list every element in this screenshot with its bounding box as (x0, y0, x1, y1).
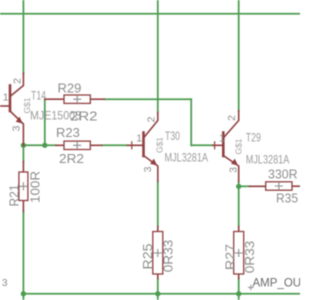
svg-text:R27: R27 (222, 244, 237, 270)
svg-text:AMP_OUT: AMP_OUT (253, 277, 301, 289)
junction R29/R23 tap (42, 143, 47, 148)
wire R29 left vertical feed (44, 99, 46, 145)
svg-text:330R: 330R (268, 166, 298, 181)
resistor R25 (153, 227, 163, 279)
junction rail middle (155, 291, 160, 296)
svg-text:2: 2 (11, 78, 23, 84)
svg-text:3: 3 (142, 166, 154, 172)
svg-text:2R2: 2R2 (70, 108, 98, 123)
wire vertical through T14 collector (22, 0, 24, 74)
svg-text:R21: R21 (6, 185, 21, 207)
svg-text:100R: 100R (28, 171, 43, 203)
junction node A (21, 143, 26, 148)
svg-text:G$1: G$1 (154, 137, 164, 153)
svg-text:2: 2 (145, 116, 157, 122)
svg-text:2: 2 (226, 115, 238, 121)
wire to T29 base (191, 144, 212, 146)
svg-text:R23: R23 (56, 125, 80, 140)
transistor T30 (128, 113, 158, 182)
wire bottom output rail (23, 293, 300, 295)
resistor R35 (250, 182, 301, 190)
net label AMP_OUT origin cross (249, 285, 254, 289)
svg-text:R25: R25 (140, 244, 155, 270)
wire corner down to T29 base level (190, 99, 192, 145)
svg-text:T30: T30 (165, 129, 180, 143)
wire T29 emitter to node B (238, 182, 240, 187)
wire vertical through T30 collector (157, 0, 159, 113)
wire R21 bottom to rail (22, 212, 24, 300)
wire node A horizontal (T14 emitter to R23) (23, 144, 56, 146)
svg-text:T14: T14 (31, 89, 46, 103)
svg-text:1: 1 (219, 132, 225, 144)
junction rail left (21, 291, 26, 296)
junction node B (236, 184, 241, 189)
wire node B down to R27 (238, 186, 240, 226)
svg-text:MJL3281A: MJL3281A (246, 152, 289, 166)
svg-text:1: 1 (3, 91, 9, 103)
wire R27 bottom to rail (238, 279, 240, 300)
transistor T14 (0, 73, 23, 146)
wire vertical through T29 collector (238, 0, 240, 111)
wire node B right to R35 (239, 185, 250, 187)
junction rail right (236, 291, 241, 296)
svg-text:3: 3 (2, 277, 8, 289)
svg-text:R35: R35 (276, 190, 298, 205)
svg-text:3: 3 (10, 125, 22, 131)
resistor R27 (234, 227, 244, 279)
resistor R23 (56, 141, 102, 149)
svg-text:MJL3281A: MJL3281A (165, 151, 209, 165)
wire R29 output horizontal (104, 98, 191, 100)
wire T30 emitter down (157, 182, 159, 227)
wire R23 output to T30 base (102, 144, 128, 146)
wire R25 bottom to rail (157, 279, 159, 300)
resistor R29 (45, 95, 105, 103)
wire top positive rail (0, 13, 300, 15)
wire R21 top (22, 145, 24, 161)
svg-text:T29: T29 (246, 131, 261, 145)
svg-text:3: 3 (227, 167, 239, 173)
svg-text:1: 1 (136, 132, 142, 144)
transistor T29 (213, 111, 239, 182)
resistor R21 (19, 162, 28, 212)
svg-text:0R33: 0R33 (242, 241, 257, 274)
svg-text:0R33: 0R33 (160, 240, 175, 273)
svg-text:R29: R29 (58, 81, 82, 96)
svg-text:2R2: 2R2 (59, 151, 84, 166)
svg-text:G$1: G$1 (234, 138, 244, 154)
